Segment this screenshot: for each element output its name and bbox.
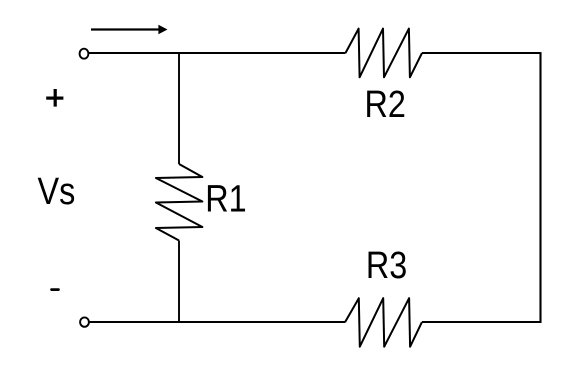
wire: branch from R1 down to bottom node (178, 241, 180, 323)
svg-text:R2: R2 (365, 84, 406, 126)
label + (positive terminal), horizontal bar (46, 97, 63, 100)
wire: bottom rail from R3 to bottom-right corner (422, 321, 542, 323)
current direction arrow (shaft) (91, 28, 160, 30)
label - (negative terminal) (50, 288, 60, 291)
terminal: bottom-left open circle (-) (80, 317, 89, 326)
wire: branch from top node down to R1 (178, 52, 180, 164)
current direction arrow (head) (158, 25, 167, 34)
wire: top rail from source terminal through node to R2 (89, 52, 346, 54)
label + (positive terminal), vertical bar (54, 89, 57, 107)
wire: right side vertical (539, 52, 541, 323)
resistor R1 (vertical sawtooth) (156, 164, 203, 241)
wire: bottom rail from negative terminal to R3 (90, 321, 346, 323)
wire: top rail from R2 to top-right corner (422, 52, 541, 54)
terminal: top-left open circle (+) (80, 49, 89, 59)
svg-text:R1: R1 (205, 179, 246, 221)
resistor R3 (bottom, horizontal sawtooth) (345, 298, 422, 347)
svg-text:Vs: Vs (38, 171, 76, 213)
resistor R2 (top, horizontal sawtooth) (346, 29, 423, 78)
svg-text:R3: R3 (366, 245, 407, 287)
